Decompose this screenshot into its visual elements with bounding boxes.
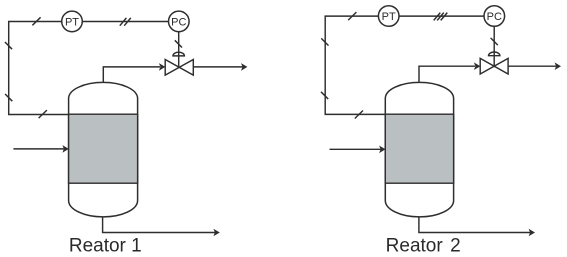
valve actuator diaphragm Reator 2 — [489, 52, 500, 56]
arrowhead bottom outlet Reator 2 — [529, 229, 535, 237]
instrument bubble PC Reator 2 — [484, 6, 505, 27]
wire: PC to valve stem Reator 1 — [178, 32, 180, 68]
signal slash on loop vertical upper Reator 1 — [5, 42, 12, 49]
pipe: valve outlet Reator 2 — [508, 65, 556, 67]
vessel Reator 1 — [69, 82, 138, 216]
signal slash on loop vertical lower Reator 2 — [321, 92, 328, 99]
wire: signal tap loop Reator 2 — [325, 16, 484, 114]
arrowhead feed inlet Reator 1 — [62, 145, 68, 153]
vessel Reator 2 — [385, 82, 453, 217]
control valve body Reator 2 — [480, 58, 508, 74]
instrument bubble PT Reator 1 — [62, 11, 83, 32]
pipe: bottom outlet Reator 2 — [419, 217, 531, 233]
arrowhead at valve inlet Reator 2 — [474, 62, 480, 70]
pipe: vessel top outlet to valve Reator 1 — [103, 67, 160, 83]
pipe: vessel top outlet to valve Reator 2 — [419, 66, 475, 82]
arrowhead at line end Reator 1 — [241, 63, 247, 71]
arrowhead bottom outlet Reator 1 — [213, 229, 219, 237]
svg-text:PT: PT — [65, 16, 79, 28]
instrument bubble PT Reator 2 — [378, 6, 399, 27]
arrowhead at valve inlet Reator 1 — [159, 63, 165, 71]
instrument bubble PC Reator 1 — [169, 11, 190, 32]
pipe: bottom outlet Reator 1 — [103, 217, 216, 233]
svg-text:PC: PC — [487, 11, 502, 23]
control valve body Reator 1 — [165, 60, 193, 76]
signal slash on loop vertical lower Reator 1 — [5, 94, 12, 101]
pipe: valve outlet Reator 1 — [193, 66, 243, 68]
signal slash on valve stem Reator 1 — [175, 40, 182, 47]
packed bed (gray section) Reator 2 — [385, 114, 453, 183]
packed bed (gray section) Reator 1 — [69, 114, 138, 183]
signal slash on top line Reator 1 — [32, 17, 40, 25]
svg-text:Reator 2: Reator 2 — [386, 235, 461, 256]
signal slash on top line Reator 2 — [348, 12, 356, 20]
wire: PC to valve stem Reator 2 — [493, 26, 495, 67]
signal slash on tap line Reator 2 — [355, 111, 363, 119]
signal slash on loop vertical upper Reator 2 — [321, 38, 328, 45]
signal slash on tap line Reator 1 — [39, 110, 47, 118]
double slash between PT and PC Reator 1 — [120, 18, 131, 26]
arrowhead at line end Reator 2 — [555, 62, 561, 70]
svg-text:PC: PC — [171, 16, 186, 28]
pipe: feed inlet Reator 2 — [330, 148, 381, 150]
svg-text:Reator 1: Reator 1 — [69, 235, 142, 256]
valve actuator diaphragm Reator 1 — [173, 52, 184, 56]
triple slash between PT and PC Reator 2 — [434, 13, 448, 21]
signal slash on valve stem Reator 2 — [491, 38, 498, 45]
arrowhead feed inlet Reator 2 — [379, 146, 385, 154]
pipe: feed inlet Reator 1 — [13, 148, 64, 150]
wire: signal tap loop Reator 1 — [9, 22, 169, 115]
svg-text:PT: PT — [382, 11, 396, 23]
